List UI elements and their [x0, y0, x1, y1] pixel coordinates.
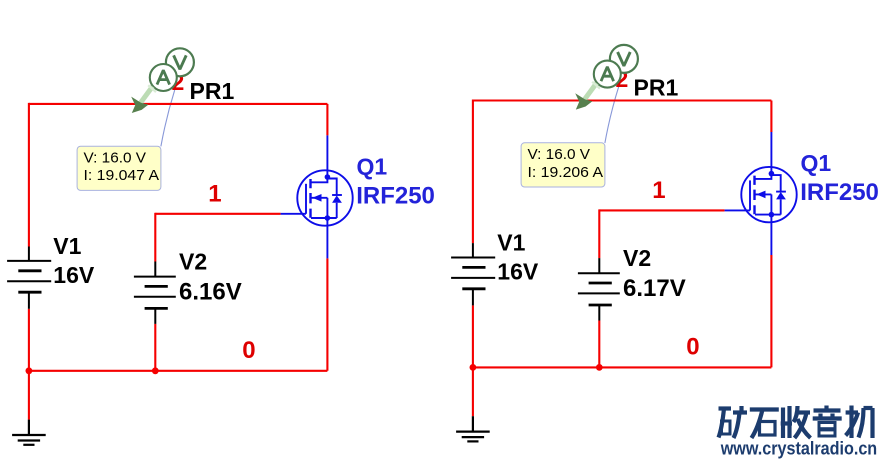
svg-text:6.17V: 6.17V [623, 275, 686, 302]
svg-text:I: 19.206 A: I: 19.206 A [528, 164, 604, 181]
svg-text:I: 19.047 A: I: 19.047 A [84, 167, 160, 184]
svg-text:6.16V: 6.16V [179, 278, 242, 305]
svg-text:www.crystalradio.cn: www.crystalradio.cn [720, 438, 877, 458]
